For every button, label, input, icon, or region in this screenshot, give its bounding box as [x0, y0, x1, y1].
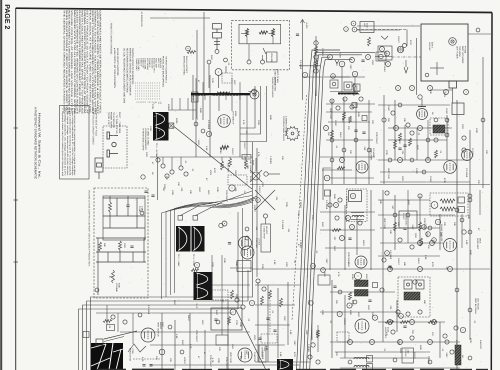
terminal [476, 28, 480, 32]
terminal [428, 340, 433, 345]
speaker transformer winding [354, 366, 369, 368]
terminal [393, 213, 397, 217]
wire [272, 37, 274, 44]
terminal [398, 340, 403, 345]
xtal box [354, 84, 361, 91]
terminal [468, 230, 472, 234]
svg-text:4.7K: 4.7K [257, 152, 260, 157]
terminal [388, 267, 393, 272]
terminal [311, 264, 316, 269]
shielded cable run [240, 86, 267, 142]
svg-text:4.7K: 4.7K [455, 340, 458, 345]
dot-dash gang line [392, 56, 421, 58]
wire [357, 29, 407, 31]
VOLUME label box [267, 52, 278, 62]
wire B+ feed [302, 20, 304, 100]
svg-text:(OVERALL) MARKERS: (OVERALL) MARKERS [144, 128, 147, 150]
svg-text:& WIRING VIEWED: & WIRING VIEWED [285, 116, 288, 135]
svg-text:1/2 6AN8: 1/2 6AN8 [299, 60, 302, 70]
mixer tube [215, 69, 222, 76]
wire [218, 96, 220, 111]
flyback dashed box [430, 118, 448, 135]
resistor [280, 298, 283, 307]
svg-text:10K: 10K [397, 222, 400, 226]
capacitor [228, 243, 231, 245]
resistor [349, 292, 352, 300]
svg-text:560K: 560K [269, 115, 272, 121]
capacitor [403, 326, 406, 328]
svg-text:1/2 6AN8: 1/2 6AN8 [372, 148, 375, 158]
svg-text:5600: 5600 [210, 55, 213, 61]
terminal [340, 236, 345, 241]
wire [150, 344, 250, 346]
svg-text:100K: 100K [321, 310, 324, 316]
arrow +140V [301, 20, 305, 24]
svg-text:4.5 MC TRAP: 4.5 MC TRAP [263, 226, 266, 239]
svg-text:OSC: OSC [245, 350, 248, 355]
terminal [194, 122, 198, 126]
socket box [96, 339, 103, 345]
svg-text:FROM PIN SIDE OF PLUG: FROM PIN SIDE OF PLUG [94, 108, 97, 136]
svg-text:1ST AUDIO: 1ST AUDIO [261, 347, 264, 358]
resistor [337, 167, 345, 170]
caption AC INTERLOCK CIRCUIT VIEWED FROM PIN SIDE [92, 108, 98, 145]
label NO VIDEO [383, 62, 386, 72]
wire [331, 100, 333, 184]
svg-text:A PHOTOFACT STANDARD NOTATION: A PHOTOFACT STANDARD NOTATION SCHEMATIC [34, 107, 38, 180]
resistor [272, 29, 275, 37]
svg-text:VALUE OR APPLICATION: VALUE OR APPLICATION [116, 48, 119, 76]
terminal [443, 334, 447, 338]
svg-text:AC INTERLOCK: AC INTERLOCK [140, 12, 143, 28]
audio box [211, 308, 242, 330]
svg-text:270K: 270K [385, 150, 388, 156]
wire [311, 310, 313, 340]
svg-text:PAGE 2: PAGE 2 [3, 4, 10, 29]
horizontal output tube [444, 161, 457, 174]
arrow +135V [335, 60, 339, 64]
svg-text:3300: 3300 [145, 152, 148, 158]
svg-text:6.8K: 6.8K [175, 334, 178, 339]
svg-text:PLUG & SOCKET: PLUG & SOCKET [185, 56, 188, 73]
svg-text:220K: 220K [285, 202, 288, 208]
test point square F [193, 216, 198, 221]
svg-text:UNLESS OTHERWISE NOTED. ARROWS: UNLESS OTHERWISE NOTED. ARROWS ON CONTRO… [75, 10, 78, 115]
audio output tube V9 [238, 348, 252, 362]
svg-text:6CB6: 6CB6 [219, 148, 222, 154]
UHF tuner box [421, 24, 468, 81]
index of sections list [135, 58, 162, 104]
svg-text:2ND VIDEO IF: 2ND VIDEO IF [249, 160, 252, 174]
resistor [187, 51, 196, 54]
wire [330, 76, 365, 78]
wire [221, 255, 223, 335]
label vert output [157, 322, 163, 337]
wire [208, 64, 210, 88]
wire [421, 99, 423, 107]
svg-text:OSC: OSC [371, 312, 374, 317]
terminal circled R [230, 309, 236, 315]
AC plug lower pictorial [95, 158, 103, 179]
terminal [380, 288, 384, 292]
tone terminal [140, 211, 144, 215]
svg-text:PEAK SIGNAL AT PICTURE TUBE GR: PEAK SIGNAL AT PICTURE TUBE GRID RETRACE… [88, 10, 91, 115]
terminal [455, 208, 459, 212]
wire [136, 198, 138, 228]
socket dot [332, 82, 336, 86]
terminal [95, 288, 99, 292]
svg-text:150V: 150V [399, 348, 402, 354]
terminal [410, 245, 414, 249]
resistor [400, 321, 409, 324]
wire [255, 361, 310, 363]
resistor [261, 296, 264, 305]
label #9 [108, 326, 111, 329]
panel cable arc 4 [175, 196, 258, 293]
svg-text:6CB6: 6CB6 [167, 104, 170, 110]
transformer terminal L [431, 202, 438, 209]
svg-text:→ REMOTE CHASSIS GROUND: → REMOTE CHASSIS GROUND [109, 20, 112, 55]
wire [340, 357, 430, 359]
terminal [391, 330, 395, 334]
wire [195, 96, 197, 157]
long wire row divider [250, 184, 490, 186]
UHF tuner mounting tab [449, 81, 457, 88]
label TONE CONTROL [274, 69, 280, 86]
test point square E [178, 216, 183, 221]
test point x [170, 124, 174, 128]
antenna twin lead terminal [213, 24, 222, 50]
svg-text:PT-588: PT-588 [464, 46, 467, 54]
svg-text:.0047: .0047 [325, 258, 328, 264]
terminal [165, 174, 169, 178]
tube small [354, 272, 361, 279]
wire [326, 103, 375, 105]
quadrature coil dashed box [430, 193, 468, 216]
volume control assembly dashed box [232, 20, 290, 69]
numbered notes box [60, 106, 90, 180]
socket box [325, 190, 331, 196]
terminal [450, 350, 454, 354]
terminal [434, 138, 438, 142]
wire [255, 158, 257, 171]
svg-text:1/2 6AN8: 1/2 6AN8 [147, 305, 150, 315]
wire [195, 78, 197, 93]
terminal [352, 71, 357, 76]
resistor [435, 150, 438, 158]
label 2ND VIDEO IF [249, 160, 255, 174]
wire [119, 250, 121, 262]
terminal square F2 [458, 207, 465, 213]
wire [204, 330, 206, 370]
wire [187, 98, 189, 110]
svg-text:PHONO JACK (REAR APRON): PHONO JACK (REAR APRON) [162, 56, 165, 87]
resistor [394, 222, 397, 231]
wire [255, 284, 300, 286]
terminal [418, 194, 422, 198]
terminal [445, 340, 449, 344]
label AGC [227, 163, 230, 173]
coil winding [339, 93, 348, 95]
volume control inner box [239, 24, 281, 44]
terminal [399, 314, 404, 319]
tuner shield bar 2 [338, 92, 358, 94]
IF response curve photo [153, 112, 169, 141]
svg-text:100K: 100K [171, 190, 174, 196]
wire [221, 157, 223, 161]
wire [246, 37, 248, 44]
noise gate box [237, 261, 251, 272]
svg-text:1500: 1500 [307, 300, 310, 306]
svg-text:AGC: AGC [201, 320, 204, 325]
terminal [406, 123, 410, 127]
svg-text:5600: 5600 [173, 300, 176, 306]
resistor [317, 330, 320, 338]
wire [335, 351, 430, 353]
svg-text:1500: 1500 [231, 344, 234, 350]
wire [132, 252, 134, 262]
wire [380, 227, 440, 229]
wire [109, 196, 111, 202]
capacitor [368, 300, 371, 302]
resistor [231, 290, 234, 299]
wire [354, 77, 356, 92]
svg-text:560K: 560K [333, 194, 336, 200]
wire [325, 247, 370, 249]
terminal [316, 360, 320, 364]
svg-text:.0047: .0047 [411, 224, 414, 230]
flyback coil [433, 125, 445, 133]
terminal [354, 138, 358, 142]
coil winding upper [440, 199, 455, 203]
terminal [302, 72, 307, 77]
svg-text:470K: 470K [469, 338, 472, 344]
svg-text:.0047: .0047 [445, 352, 448, 358]
vert osc transformer dashed [398, 277, 430, 317]
transformer adjust [350, 193, 355, 198]
resistor [368, 37, 371, 46]
wire [248, 44, 250, 60]
terminal [481, 118, 485, 122]
wire [378, 321, 445, 323]
svg-text:1/2 6AN8: 1/2 6AN8 [389, 250, 392, 260]
svg-text:150V: 150V [443, 92, 446, 98]
marker waveform photo [194, 272, 213, 300]
wire [430, 67, 444, 69]
terminal [422, 170, 426, 174]
svg-text:SYNC: SYNC [315, 330, 318, 336]
svg-text:5600: 5600 [365, 274, 368, 280]
svg-text:3300: 3300 [439, 232, 442, 238]
wire [331, 280, 333, 358]
resistor [385, 321, 394, 324]
svg-text:33K: 33K [453, 222, 456, 226]
wire [340, 367, 460, 369]
svg-text:SYNC: SYNC [334, 120, 337, 126]
margin tick [14, 261, 19, 263]
wire [161, 313, 163, 370]
wire [241, 33, 247, 35]
svg-text:1500: 1500 [407, 200, 410, 206]
capacitor [142, 365, 145, 367]
svg-text:33K: 33K [379, 200, 382, 204]
svg-text:6CB6: 6CB6 [351, 300, 354, 306]
wire [303, 76, 351, 78]
terminal [425, 73, 429, 77]
arrow +260V [352, 84, 356, 88]
parts note SEE PARTS LIST [113, 48, 119, 88]
wire [326, 139, 373, 141]
capacitor [144, 191, 147, 193]
label TP-2 [177, 254, 180, 267]
svg-text:CONTRAST: CONTRAST [423, 218, 426, 231]
terminal [348, 360, 352, 364]
capacitor [398, 148, 401, 150]
svg-text:5600: 5600 [333, 246, 336, 252]
wire [227, 300, 229, 370]
wire [96, 261, 146, 263]
svg-text:CONTRAST: CONTRAST [195, 330, 198, 343]
terminal [366, 55, 371, 60]
wire [315, 36, 317, 96]
terminal [222, 221, 227, 226]
terminal [201, 129, 205, 133]
svg-text:6CB6: 6CB6 [249, 176, 252, 182]
wire [106, 305, 108, 324]
svg-text:AGC BUS: AGC BUS [227, 163, 230, 173]
svg-text:500K: 500K [117, 283, 120, 288]
svg-text:560K: 560K [199, 108, 202, 114]
terminal [386, 62, 391, 67]
svg-text:33K: 33K [429, 90, 432, 94]
terminal [426, 232, 431, 237]
resistor [246, 29, 249, 37]
terminal [261, 60, 265, 64]
wire [171, 98, 173, 110]
terminal [252, 89, 257, 94]
wire [388, 139, 447, 141]
svg-text:270K: 270K [235, 320, 238, 326]
terminal [428, 226, 432, 230]
terminal [403, 44, 407, 48]
socket [362, 116, 367, 121]
label 20000V [471, 148, 474, 157]
label 4.5MC DISC [402, 213, 408, 226]
terminal [180, 350, 184, 354]
svg-text:AGC: AGC [233, 80, 236, 85]
terminal [468, 198, 472, 202]
vert output peak wires [128, 344, 146, 352]
wire UHF tab down [452, 88, 454, 103]
svg-text:CONTRAST: CONTRAST [225, 357, 228, 370]
bus wire 1 [297, 50, 341, 370]
label +140V [305, 22, 308, 29]
svg-text:4700: 4700 [409, 40, 412, 46]
terminal [352, 27, 357, 32]
audio det tube [444, 239, 457, 252]
terminal [170, 170, 174, 174]
terminal [348, 340, 353, 345]
resistor [343, 112, 346, 120]
bus wire 2 [300, 52, 375, 370]
UHF tuner label [456, 46, 467, 64]
wire [162, 157, 164, 164]
svg-text:22K: 22K [246, 165, 249, 169]
contrast potentiometer [250, 170, 262, 182]
terminal [410, 336, 414, 340]
wire [255, 324, 290, 326]
label 6AQ5 AUDIO OUT [384, 327, 390, 339]
antenna terminal [215, 50, 219, 54]
terminal [184, 172, 188, 176]
svg-text:4.7K: 4.7K [189, 344, 192, 349]
svg-text:COMPONENTS AND MUST BE REPLACE: COMPONENTS AND MUST BE REPLACED WITH EXA… [99, 10, 102, 115]
svg-text:6AU8: 6AU8 [339, 132, 342, 138]
capacitor [273, 330, 276, 332]
label yoke [129, 348, 135, 362]
wire dashed vert [269, 300, 271, 332]
damper tube V11 [462, 150, 473, 161]
wire [328, 121, 370, 123]
terminal [123, 320, 127, 324]
socket box [216, 335, 228, 345]
wire [204, 96, 206, 100]
svg-text:TO PIN 1 OF: TO PIN 1 OF [107, 112, 110, 125]
terminal [410, 86, 415, 91]
svg-text:12AU7: 12AU7 [243, 142, 246, 149]
VHF oscillator tube [397, 46, 403, 52]
svg-text:100K: 100K [216, 187, 219, 193]
svg-text:22K: 22K [485, 150, 488, 154]
wire [375, 56, 392, 58]
svg-text:2.2MEG: 2.2MEG [269, 156, 272, 164]
test point x [170, 124, 174, 128]
svg-text:HORIZ: HORIZ [183, 357, 186, 364]
top border [16, 8, 492, 12]
terminal [249, 300, 254, 305]
wire [157, 157, 159, 200]
terminal [235, 298, 239, 302]
wire [109, 212, 111, 228]
label top small [140, 12, 143, 28]
terminal [219, 223, 223, 227]
resistor 270K [119, 241, 122, 250]
label TONE [138, 206, 143, 213]
svg-text:4.7K: 4.7K [337, 272, 340, 277]
terminal [179, 166, 183, 170]
svg-text:SYNC: SYNC [445, 108, 448, 114]
right border [490, 13, 493, 370]
wire [406, 30, 408, 47]
wire [211, 255, 213, 290]
svg-text:100K: 100K [239, 322, 242, 328]
terminal [350, 58, 355, 63]
capacitor [296, 34, 299, 36]
svg-text:VERT OSC: VERT OSC [383, 218, 386, 230]
terminal [343, 97, 347, 101]
terminal [460, 218, 464, 222]
svg-text:ADJUST: ADJUST [265, 226, 268, 235]
speaker transformer winding [354, 358, 369, 360]
wire [96, 251, 146, 253]
svg-text:1/2 6AN8: 1/2 6AN8 [465, 168, 468, 178]
terminal [394, 126, 399, 131]
antenna coil winding [214, 95, 226, 97]
svg-text:12AU7: 12AU7 [397, 36, 400, 43]
terminal box A1 [367, 356, 373, 363]
svg-text:4.7K: 4.7K [141, 357, 144, 362]
terminal [410, 131, 414, 135]
